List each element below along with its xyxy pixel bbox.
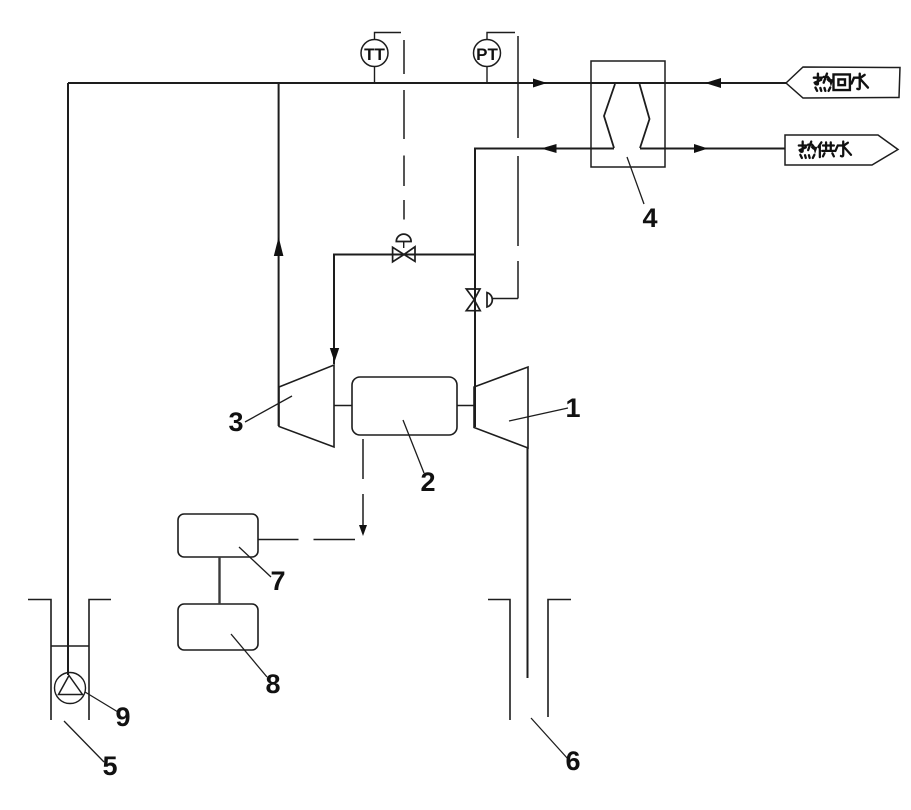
leader line 4 (627, 157, 644, 204)
wire turbine-1 exhaust to well 6 (527, 448, 529, 678)
generator G2 body (352, 377, 457, 435)
instrument labels (364, 45, 498, 64)
instrument TT signal dashed (403, 40, 405, 220)
wire turbine-3 exhaust riser (278, 83, 280, 426)
svg-text:PT: PT (476, 45, 498, 64)
shaft generator-turbine1 (457, 405, 474, 407)
control valve V1 body (393, 234, 415, 262)
热 (814, 74, 832, 91)
leader line 1 (509, 408, 568, 421)
水 (835, 142, 851, 157)
水 (852, 74, 868, 90)
well 5 water level (51, 645, 89, 647)
svg-text:6: 6 (565, 746, 580, 776)
arrow left on HX outlet (541, 144, 557, 153)
text 热回水 (hand drawn) (814, 74, 868, 91)
dashed electric line generator to box 7 (259, 439, 364, 540)
arrow into HX hot side (533, 79, 547, 88)
arrow supply water out (694, 144, 708, 153)
shaft turbine3-generator (334, 405, 352, 407)
heat exchanger U4 right plate (640, 84, 650, 148)
well 5 casing (28, 600, 111, 721)
wire top header line (68, 82, 786, 84)
arrow down into turbine 3 (330, 348, 339, 362)
svg-text:9: 9 (115, 702, 130, 732)
热 (799, 142, 816, 158)
svg-text:3: 3 (228, 407, 243, 437)
banner flag hot return water (786, 67, 900, 98)
banner flag hot supply water (785, 135, 898, 165)
instrument TT bubble (361, 33, 401, 84)
arrow up riser (274, 237, 284, 256)
svg-text:7: 7 (270, 566, 285, 596)
turbine 1 (474, 367, 528, 448)
leader line 9 (85, 692, 118, 712)
leader line 5 (64, 721, 104, 762)
link box7-box8 (218, 557, 220, 604)
reference number labels (102, 203, 657, 781)
wire HX cold-out to valve line (475, 149, 614, 428)
wire left downcomer to well 5 (67, 83, 69, 675)
leader line 7 (239, 547, 271, 577)
heat exchanger U4 left plate (604, 84, 615, 148)
shutoff valve V2 body (466, 289, 492, 311)
供 (818, 142, 834, 157)
wire control-valve branch (334, 255, 475, 365)
text 热供水 (hand drawn) (799, 142, 851, 158)
arrow return water into HX (705, 78, 721, 88)
leader line 6 (531, 718, 568, 759)
instrument PT bubble (474, 33, 516, 84)
leader line 2 (403, 420, 424, 473)
transformer box 7 (178, 514, 258, 557)
grid box 8 (178, 604, 258, 650)
pump 9 (55, 673, 86, 704)
svg-text:8: 8 (265, 669, 280, 699)
svg-text:1: 1 (565, 393, 580, 423)
svg-text:4: 4 (642, 203, 657, 233)
leader line 8 (231, 634, 267, 677)
instrument PT signal dashed (493, 36, 518, 299)
回 (834, 74, 850, 90)
svg-text:5: 5 (102, 751, 117, 781)
heat exchanger U4 body (591, 61, 665, 167)
well 6 casing (488, 600, 571, 721)
turbine 3 (279, 365, 334, 447)
arrow down electric line (359, 525, 367, 536)
leader line 3 (245, 396, 292, 422)
svg-text:2: 2 (420, 467, 435, 497)
wire HX hot supply out (640, 148, 785, 150)
svg-text:TT: TT (364, 45, 385, 64)
